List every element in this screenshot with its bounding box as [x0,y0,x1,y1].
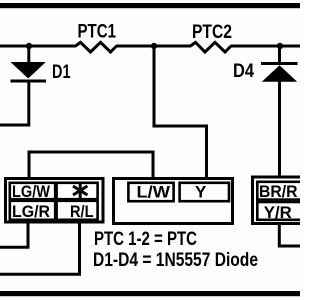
svg-text:LG/W: LG/W [12,182,51,201]
resistor PTC2 [191,42,232,52]
connector block right [253,177,308,224]
wire bus right segment [231,45,301,48]
svg-text:BR/R: BR/R [259,182,298,201]
node junction at D4 [277,43,283,49]
diode D1 [11,46,47,83]
svg-text:R/L: R/L [70,202,94,221]
wire D1 to left edge [0,81,29,125]
wire bus middle segment [116,45,191,48]
svg-text:L/W: L/W [137,182,172,201]
wire R/L to left edge [0,221,80,275]
diode D4 [261,46,298,82]
wire LG/W to L/W terminal [29,152,153,178]
wire D4 to BR/R terminal [278,80,281,177]
terminal L/W [128,182,173,201]
wire center junction to Y terminal [154,47,207,178]
terminal * (common) [57,183,98,200]
terminal R/L [57,201,98,221]
svg-text:D1: D1 [52,62,71,83]
node junction at D1 [26,43,32,49]
terminal BR/R [257,182,307,201]
svg-text:PTC2: PTC2 [192,22,232,43]
terminal Y [180,182,229,201]
svg-text:PTC 1-2 = PTC: PTC 1-2 = PTC [94,229,197,250]
terminal Y/R [257,202,307,222]
wire LG/R to left edge [0,222,28,247]
wire bus left segment [0,45,76,48]
terminal LG/R [10,201,55,221]
svg-text:Y: Y [195,182,207,201]
node junction center [151,43,157,49]
svg-text:PTC1: PTC1 [78,22,117,43]
terminal LG/W [10,182,55,201]
connector block middle [114,179,233,224]
wire Y/R to right edge [279,224,300,246]
svg-text:Y/R: Y/R [264,203,292,222]
svg-text:D4: D4 [233,61,254,82]
svg-text:LG/R: LG/R [12,202,50,221]
svg-text:D1-D4 = 1N5557 Diode: D1-D4 = 1N5557 Diode [93,250,258,271]
connector block left [6,179,104,223]
resistor PTC1 [76,42,117,52]
